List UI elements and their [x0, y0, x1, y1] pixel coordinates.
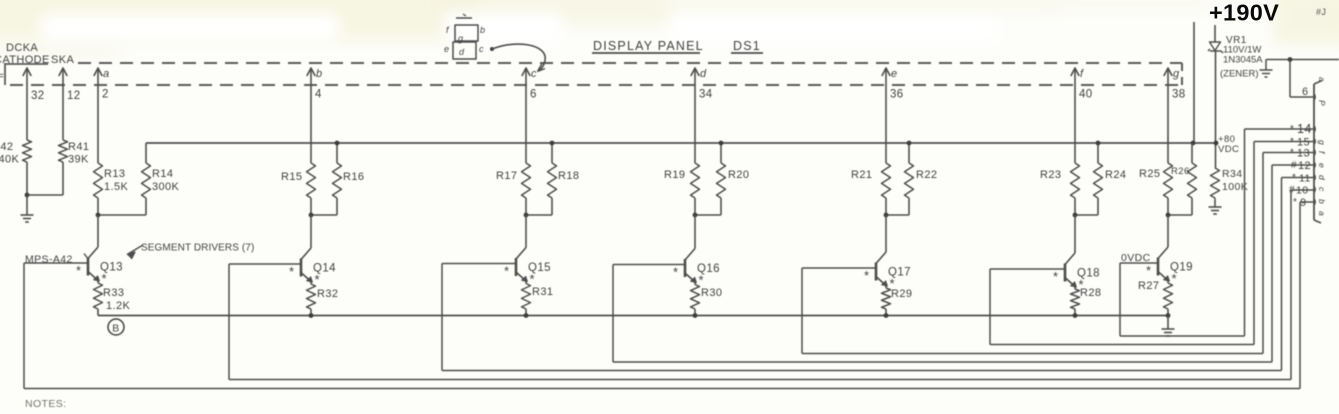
svg-text:300K: 300K: [152, 181, 180, 193]
svg-text:DCKA: DCKA: [6, 42, 38, 54]
svg-text:*: *: [76, 263, 81, 278]
svg-text:R29: R29: [891, 288, 912, 300]
svg-text:g: g: [458, 34, 463, 44]
svg-text:340K: 340K: [0, 154, 20, 166]
svg-text:Q14: Q14: [313, 263, 336, 275]
svg-text:6: 6: [1302, 86, 1309, 98]
svg-text:Q17: Q17: [888, 267, 911, 279]
svg-text:R27: R27: [1138, 280, 1159, 292]
svg-text:40: 40: [1079, 89, 1093, 101]
svg-text:Q16: Q16: [697, 263, 720, 275]
svg-text:R34: R34: [1222, 168, 1242, 180]
svg-text:39K: 39K: [68, 154, 89, 166]
svg-text:R23: R23: [1040, 169, 1061, 181]
svg-text:R32: R32: [317, 288, 338, 300]
svg-text:34: 34: [699, 89, 713, 101]
svg-text:B: B: [112, 323, 119, 335]
svg-text:b: b: [1317, 199, 1327, 204]
svg-text:1N3045A: 1N3045A: [1223, 55, 1263, 66]
svg-text:P: P: [1317, 100, 1327, 106]
svg-text:*: *: [673, 265, 678, 280]
svg-text:R26: R26: [1171, 166, 1190, 177]
svg-text:NOTES:: NOTES:: [25, 398, 67, 410]
svg-text:*: *: [1293, 197, 1297, 208]
svg-text:d: d: [700, 68, 707, 80]
svg-text:#J: #J: [1316, 7, 1326, 17]
svg-text:R33: R33: [103, 287, 124, 299]
svg-text:R14: R14: [152, 168, 173, 180]
svg-text:*: *: [1146, 263, 1151, 278]
svg-text:a: a: [1317, 211, 1327, 216]
svg-text:11: 11: [1299, 173, 1311, 185]
svg-text:Q18: Q18: [1077, 268, 1100, 280]
svg-text:0VDC: 0VDC: [1121, 252, 1151, 264]
svg-text:*: *: [1290, 148, 1294, 159]
svg-text:a: a: [1317, 77, 1327, 82]
svg-text:R21: R21: [851, 169, 872, 181]
svg-text:R19: R19: [664, 169, 685, 181]
svg-text:VDC: VDC: [1218, 144, 1239, 155]
svg-text:(ZENER): (ZENER): [1220, 69, 1259, 80]
svg-text:#: #: [1291, 160, 1297, 171]
svg-text:R30: R30: [701, 287, 722, 299]
svg-text:14: 14: [1297, 122, 1312, 136]
svg-text:*: *: [1292, 173, 1296, 184]
svg-text:#: #: [1289, 185, 1295, 196]
svg-text:Q19: Q19: [1170, 262, 1193, 274]
svg-text:2: 2: [102, 89, 109, 101]
svg-text:b: b: [316, 68, 323, 80]
svg-text:1.2K: 1.2K: [106, 300, 130, 312]
svg-text:13: 13: [1297, 148, 1310, 160]
svg-text:=: =: [0, 71, 4, 82]
svg-text:4: 4: [315, 89, 322, 101]
svg-text:10: 10: [1296, 185, 1308, 197]
svg-text:d: d: [1317, 175, 1327, 180]
svg-text:R41: R41: [68, 141, 89, 153]
svg-text:g: g: [1173, 68, 1180, 80]
svg-text:*: *: [289, 264, 294, 279]
svg-text:DISPLAY PANEL: DISPLAY PANEL: [593, 39, 704, 53]
svg-text:*: *: [864, 268, 869, 283]
svg-text:e: e: [444, 44, 449, 54]
svg-text:d: d: [459, 47, 465, 57]
svg-text:DS1: DS1: [733, 39, 761, 53]
svg-text:R13: R13: [104, 168, 125, 180]
svg-text:R22: R22: [916, 169, 937, 181]
svg-text:6: 6: [530, 89, 537, 101]
svg-text:1.5K: 1.5K: [104, 181, 128, 193]
svg-text:Q15: Q15: [528, 262, 551, 274]
svg-text:12: 12: [1298, 160, 1311, 172]
svg-text:*: *: [504, 264, 509, 279]
svg-text:R18: R18: [558, 170, 579, 182]
svg-text:CATHODE: CATHODE: [0, 54, 50, 66]
svg-text:12: 12: [67, 90, 81, 102]
svg-text:Q13: Q13: [100, 262, 123, 274]
svg-text:32: 32: [31, 90, 45, 102]
svg-text:36: 36: [890, 89, 904, 101]
svg-text:f: f: [1080, 68, 1084, 80]
svg-text:R16: R16: [343, 171, 364, 183]
svg-text:c: c: [479, 44, 484, 54]
svg-text:e: e: [1317, 163, 1327, 168]
svg-text:R20: R20: [728, 169, 749, 181]
svg-text:*: *: [1053, 269, 1058, 284]
svg-text:e: e: [891, 68, 898, 80]
svg-text:a: a: [103, 68, 110, 80]
svg-text:R28: R28: [1080, 287, 1101, 299]
svg-text:c: c: [531, 68, 537, 80]
svg-text:g: g: [1317, 140, 1327, 145]
svg-text:SEGMENT DRIVERS (7): SEGMENT DRIVERS (7): [141, 243, 254, 254]
svg-text:38: 38: [1172, 89, 1186, 101]
svg-text:R17: R17: [496, 170, 517, 182]
svg-text:R25: R25: [1139, 168, 1160, 180]
svg-text:SKA: SKA: [51, 54, 74, 66]
svg-text:R31: R31: [532, 286, 553, 298]
svg-text:b: b: [480, 25, 485, 35]
svg-text:*: *: [1290, 137, 1294, 148]
svg-text:*: *: [1290, 124, 1294, 135]
svg-text:R15: R15: [281, 171, 302, 183]
svg-text:R24: R24: [1105, 169, 1126, 181]
svg-text:+190V: +190V: [1209, 0, 1279, 26]
svg-text:R42: R42: [0, 141, 13, 153]
svg-text:9: 9: [1300, 197, 1307, 209]
